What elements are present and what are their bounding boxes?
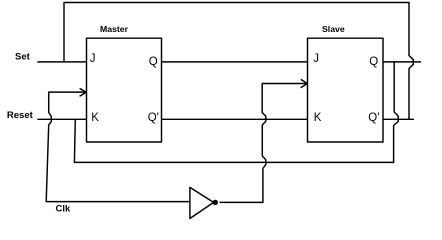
wire Slave Q output	[383, 61, 421, 63]
inverter output bubble (filled dot)	[213, 200, 218, 205]
svg-text:Q: Q	[149, 56, 158, 68]
svg-text:Q': Q'	[368, 112, 379, 124]
svg-text:Slave: Slave	[322, 24, 345, 34]
wire Master Q to Slave J	[162, 61, 308, 63]
flip-flop U2 Slave box	[308, 38, 384, 142]
svg-text:K: K	[314, 112, 322, 124]
wire Reset to Master K	[37, 118, 86, 120]
arrowhead Slave clock	[301, 79, 308, 87]
wire feedback Slave Q to K net	[74, 62, 398, 162]
svg-text:Clk: Clk	[56, 203, 72, 214]
wire Set to Master J	[37, 61, 86, 63]
svg-text:J: J	[313, 53, 319, 65]
svg-text:Reset: Reset	[7, 110, 34, 121]
flip-flop U1 Master box	[87, 38, 162, 142]
wire inverted clock to Slave clock input	[220, 84, 306, 203]
svg-text:Set: Set	[15, 52, 31, 63]
wire Master Q' to Slave K	[162, 118, 308, 120]
svg-text:J: J	[90, 53, 96, 65]
wire Slave Q' output	[383, 118, 414, 120]
svg-text:Q': Q'	[148, 112, 159, 124]
wire Clk to Master clock input	[46, 92, 190, 202]
svg-text:K: K	[91, 112, 99, 124]
inverter U3	[190, 187, 214, 218]
arrowhead Master clock	[80, 88, 87, 96]
svg-text:Master: Master	[100, 24, 129, 34]
wire feedback Slave Q' to J net over top	[64, 3, 413, 120]
svg-text:Q: Q	[369, 56, 378, 68]
